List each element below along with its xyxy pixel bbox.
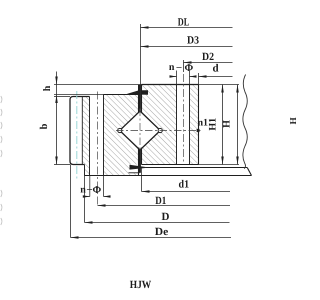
inner ring bolt hole right wall	[189, 85, 191, 165]
dimension d1	[142, 191, 231, 193]
dimension D2	[184, 62, 233, 64]
dimension h	[55, 77, 58, 85]
inner ring top edge	[142, 84, 199, 86]
svg-text:D3: D3	[187, 35, 199, 47]
svg-text:d: d	[212, 63, 218, 75]
top hole right extension	[189, 71, 191, 85]
svg-text:n: n	[169, 62, 175, 73]
flange outline with rounded left corners	[70, 97, 90, 165]
svg-text:HJW: HJW	[130, 279, 152, 291]
flange top extension	[54, 96, 70, 98]
svg-text:Φ: Φ	[92, 185, 101, 196]
svg-text:H: H	[222, 120, 233, 128]
top hole left extension	[176, 71, 178, 85]
dimension De	[71, 237, 232, 239]
outer ring top level extension	[54, 94, 104, 96]
svg-text:d1: d1	[179, 179, 190, 191]
lower seal wedge	[130, 165, 147, 170]
D2 extension stub	[183, 60, 185, 72]
inner ring bolt hole left wall	[176, 85, 178, 165]
svg-text:D1: D1	[155, 195, 166, 207]
d1 extension	[141, 168, 143, 192]
bottom hole right extension	[103, 176, 105, 197]
De extension	[70, 165, 72, 238]
dimension d	[199, 76, 233, 78]
lower ring gap seal bar	[138, 150, 141, 173]
bottom mounting face line	[85, 175, 252, 177]
inner ring bolt centerline	[183, 74, 185, 162]
outer ring flange hatched section	[82, 97, 89, 176]
svg-text:h: h	[42, 85, 53, 91]
upper ring gap seal bar	[138, 85, 141, 112]
inner ring left edge upper	[141, 85, 143, 114]
roller pin hole right	[158, 128, 162, 132]
svg-text:H: H	[288, 117, 298, 124]
flange bolt hole right wall	[81, 97, 83, 165]
dimension b	[55, 157, 58, 165]
outer ring main hatched section	[104, 95, 139, 176]
D extension	[84, 176, 86, 223]
inner ring top level extension right	[199, 84, 240, 86]
svg-text:n: n	[80, 185, 86, 196]
svg-text:D: D	[162, 211, 170, 223]
inner ring bottom edge	[142, 164, 199, 166]
roller horizontal centerline	[116, 130, 203, 132]
inner ring right edge	[198, 85, 200, 165]
inner ring left edge lower	[141, 148, 143, 165]
lower seal groove line	[129, 172, 140, 174]
d extension	[198, 73, 200, 85]
inner ring top level extension left	[54, 84, 142, 86]
flange bolt centerline (cyan)	[76, 91, 78, 181]
roller vertical centerline	[139, 109, 141, 153]
dimension D3	[141, 46, 233, 48]
left edge faint marks	[1, 96, 2, 225]
outer ring right edge upper	[138, 95, 140, 114]
outer ring bolt centerline / D1 extension	[97, 92, 99, 206]
dimension D	[85, 222, 230, 224]
svg-text:Φ: Φ	[184, 63, 193, 74]
svg-text:H1: H1	[207, 118, 218, 131]
DL/D3 extension	[140, 24, 142, 94]
flange bottom extension	[54, 164, 70, 166]
support plate top edge	[146, 167, 247, 169]
seal notch white cutout bottom	[130, 165, 139, 173]
svg-text:De: De	[155, 226, 169, 238]
inner ring bottom extension	[199, 164, 240, 166]
svg-text:D2: D2	[202, 51, 214, 63]
svg-text:b: b	[39, 123, 50, 129]
bottom hole left extension	[89, 176, 91, 197]
outer ring hole left wall	[89, 97, 91, 176]
inner ring hatched section left of bolt hole	[142, 85, 177, 165]
roller (cross roller diamond)	[120, 111, 161, 150]
outer ring right edge lower	[138, 148, 140, 176]
dimension D1	[98, 205, 231, 207]
svg-text:DL: DL	[178, 17, 190, 29]
dimension H1	[222, 85, 224, 165]
h/b dimension line	[56, 72, 58, 165]
outer ring hole right wall	[103, 95, 105, 176]
flange step down	[84, 165, 86, 176]
upper seal wedge	[126, 90, 149, 95]
svg-text:–: –	[176, 62, 183, 73]
roller pin hole left	[118, 128, 122, 132]
support plate right bevel	[247, 168, 251, 176]
outer ring top edge	[104, 94, 139, 96]
dimension H	[237, 85, 239, 165]
part edges	[70, 85, 252, 176]
break line wavy	[243, 75, 247, 169]
svg-text:n1: n1	[198, 118, 209, 129]
dimension DL	[141, 27, 233, 29]
inner ring hatched section right of bolt hole	[190, 85, 199, 165]
